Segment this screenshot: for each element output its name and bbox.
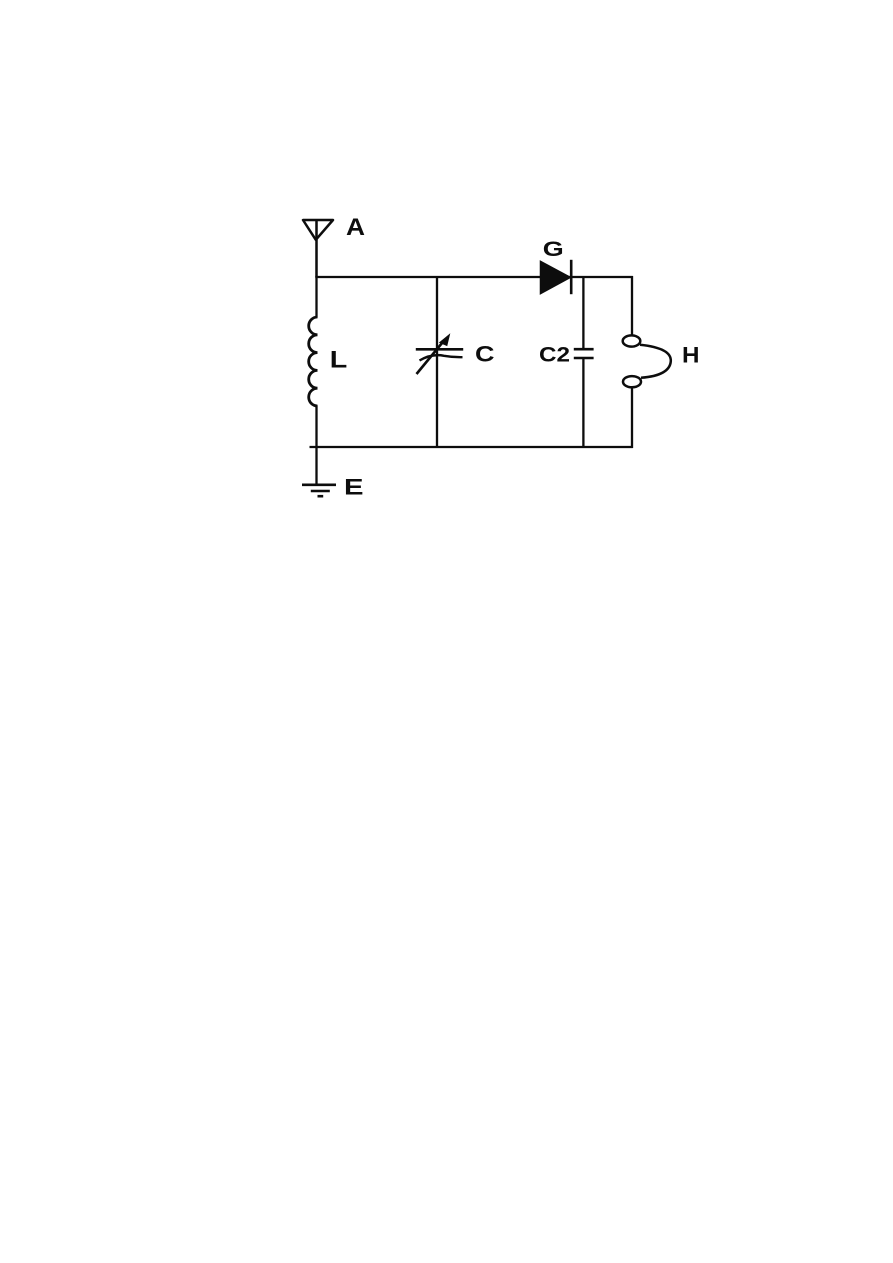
wire right upper segment <box>631 276 633 336</box>
wire right lower segment <box>631 387 633 448</box>
wire left upper segment <box>315 277 317 318</box>
wire top horizontal <box>315 276 633 278</box>
svg-text:E: E <box>344 475 364 500</box>
wire bottom horizontal <box>310 446 633 448</box>
ground E <box>302 485 336 496</box>
headphones H <box>623 335 671 387</box>
antenna A <box>303 220 333 278</box>
svg-text:L: L <box>330 347 348 374</box>
variable capacitor C <box>416 277 463 448</box>
svg-text:C: C <box>475 342 495 367</box>
inductor L <box>309 317 318 406</box>
wire ground lead <box>315 447 317 485</box>
svg-text:G: G <box>543 238 564 261</box>
wire left lower segment <box>315 406 317 449</box>
capacitor C2 <box>574 277 594 448</box>
svg-text:A: A <box>346 214 365 241</box>
svg-text:H: H <box>682 343 700 368</box>
diode G <box>541 260 572 294</box>
svg-text:C2: C2 <box>539 344 570 367</box>
